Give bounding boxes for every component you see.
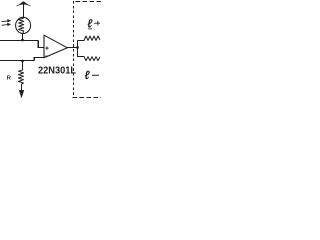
- wire: bottom rail to op-amp - input: [0, 58, 44, 61]
- svg-text:ℓ: ℓ: [85, 68, 91, 82]
- svg-text:ℓ: ℓ: [87, 17, 93, 31]
- resistor (lead wire ell-, lower): [84, 57, 100, 61]
- wire: lead of upper resistor: [78, 40, 85, 42]
- light arrows (radiation onto sensor): [2, 20, 11, 26]
- wire: op-amp output: [67, 47, 78, 49]
- node: output junction: [76, 46, 79, 49]
- ground (down arrow): [19, 90, 24, 97]
- resistor R (vertical, to ground): [19, 70, 24, 84]
- wire: top rail to op-amp + input: [0, 41, 44, 48]
- wire: lead of lower resistor: [78, 56, 85, 58]
- label ell+ plus sign: [88, 21, 99, 29]
- wire: resistor R top lead: [22, 61, 24, 70]
- node: sensor junction on top rail: [21, 39, 24, 42]
- photoresistor sensor (circle with resistor zigzag): [16, 17, 31, 33]
- resistor (lead wire ell+, upper): [84, 36, 100, 41]
- op-amp - input mark: [46, 55, 48, 57]
- wire: sensor bottom lead: [22, 33, 24, 40]
- wire: resistor R bottom lead: [21, 84, 23, 91]
- label ell- minus sign: [92, 74, 98, 76]
- wire: supply arrow stem: [23, 5, 25, 18]
- dashed enclosure (remote sensor box): [73, 1, 102, 98]
- op-amp U1: [44, 35, 67, 58]
- op-amp + input mark: [46, 47, 49, 50]
- node: resistor junction on bottom rail: [21, 60, 24, 63]
- svg-text:R: R: [7, 76, 12, 82]
- wire: vertical bus to lead resistors: [77, 41, 79, 58]
- supply arrow head: [18, 2, 28, 6]
- svg-text:22N301L: 22N301L: [38, 66, 76, 77]
